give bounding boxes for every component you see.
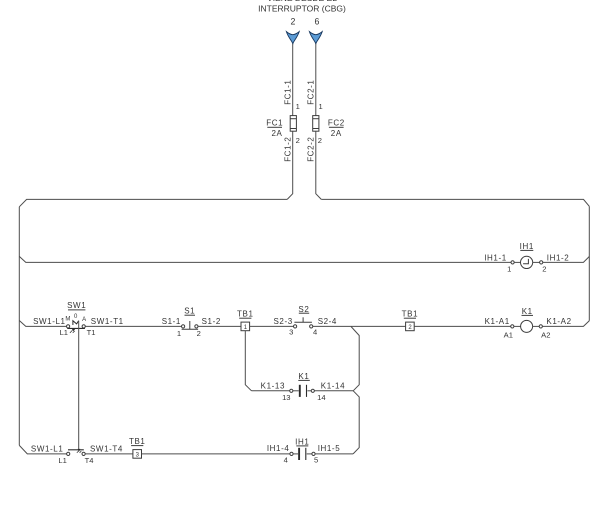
svg-text:M: M	[65, 316, 70, 322]
svg-text:3: 3	[289, 328, 293, 337]
svg-text:1: 1	[177, 329, 181, 338]
wire from hour meter IH1	[533, 261, 540, 263]
svg-text:T4: T4	[85, 456, 94, 465]
svg-text:INTERRUPTOR (CBG): INTERRUPTOR (CBG)	[258, 3, 346, 13]
svg-text:IH1: IH1	[520, 242, 534, 251]
svg-text:SW1: SW1	[67, 301, 86, 310]
svg-text:TB1: TB1	[129, 437, 145, 446]
label S1	[184, 307, 195, 316]
terminal TB1:2	[406, 322, 415, 331]
svg-text:2A: 2A	[272, 129, 283, 138]
svg-text:K1-13: K1-13	[261, 381, 285, 390]
svg-text:IH1-4: IH1-4	[267, 444, 290, 453]
wire from fuse FC1 to top bus	[287, 131, 293, 199]
svg-text:K1-A2: K1-A2	[546, 317, 571, 326]
label K1 (contact)	[298, 372, 310, 381]
top bus wire left	[19, 199, 287, 206]
svg-text:K1-A1: K1-A1	[485, 317, 510, 326]
svg-text:FC2: FC2	[328, 118, 345, 127]
wire bottom row from left bus	[19, 445, 66, 454]
svg-text:TB1: TB1	[402, 310, 418, 319]
svg-text:SW1-L1: SW1-L1	[31, 445, 64, 454]
svg-text:IH1-1: IH1-1	[484, 254, 507, 263]
terminal circle IH1 pin4	[290, 452, 293, 455]
svg-text:IH1-2: IH1-2	[547, 254, 570, 263]
svg-text:FC1: FC1	[266, 118, 283, 127]
svg-text:TB1: TB1	[237, 310, 253, 319]
svg-text:S1: S1	[184, 307, 195, 316]
svg-text:A1: A1	[504, 330, 513, 339]
selector switch SW1 pole L1-T4	[67, 449, 86, 456]
terminal circle IH1 pin1	[511, 261, 514, 264]
svg-text:IH1-5: IH1-5	[318, 444, 341, 453]
pushbutton S1 (NO)	[182, 321, 199, 329]
svg-text:K1: K1	[298, 372, 309, 381]
hour meter IH1	[521, 256, 533, 268]
terminal TB1:3	[133, 450, 142, 459]
wire main row TB1:1 to S2	[250, 325, 294, 327]
fuse FC2	[313, 116, 319, 132]
wire main row from left bus	[19, 321, 66, 327]
svg-text:SW1-L1: SW1-L1	[33, 317, 66, 326]
svg-text:2: 2	[542, 264, 546, 273]
wire drop contact row to bottom row	[353, 391, 359, 454]
wire main row TB1:2 to K1 coil	[414, 325, 511, 327]
wire bottom row IH1 contact to riser	[315, 453, 353, 455]
svg-text:K1: K1	[522, 307, 533, 316]
wire main row S2 to TB1:2	[313, 325, 406, 327]
label TB1 (terminal 3)	[129, 437, 145, 446]
svg-text:FC1-1: FC1-1	[284, 80, 293, 105]
svg-text:2: 2	[318, 136, 322, 145]
wire to hour meter IH1	[514, 261, 520, 263]
wire contact row left	[252, 390, 290, 392]
wire main row K1 to right bus	[542, 321, 589, 327]
selector switch SW1 pole L1-T1	[67, 321, 86, 333]
svg-text:5: 5	[314, 456, 318, 465]
terminal circle K1 pin14	[311, 389, 314, 392]
svg-text:T1: T1	[87, 328, 96, 337]
wire IH1 row from left bus	[19, 256, 511, 262]
wire IH1 row to right bus	[543, 257, 590, 263]
svg-text:L1: L1	[58, 456, 66, 465]
label IH1	[520, 242, 534, 251]
pushbutton S2 (NC)	[294, 317, 313, 328]
wire from connector 2 to fuse FC1	[292, 44, 294, 116]
note: VIENE DESDE EL INTERRUPTOR (CBG)	[258, 0, 346, 13]
svg-text:FC2-1: FC2-1	[307, 80, 316, 105]
relay coil K1	[521, 320, 533, 332]
label TB1 (terminal 2)	[402, 310, 418, 319]
label FC2 2A	[328, 118, 345, 138]
svg-text:2: 2	[296, 136, 300, 145]
right bus vertical wire	[588, 206, 590, 320]
svg-text:2A: 2A	[331, 129, 342, 138]
wire to coil K1	[514, 325, 521, 327]
selector switch SW1 positions M 0 A	[65, 314, 86, 323]
svg-text:FC2-2: FC2-2	[307, 137, 316, 162]
left bus vertical wire	[18, 207, 20, 446]
off-page connector 6	[309, 16, 322, 44]
svg-text:4: 4	[284, 456, 288, 465]
wire from connector 6 to fuse FC2	[315, 44, 317, 116]
svg-text:IH1: IH1	[295, 437, 309, 446]
svg-text:S2-3: S2-3	[273, 317, 292, 326]
label TB1 (terminal 1)	[237, 310, 253, 319]
svg-text:4: 4	[313, 328, 317, 337]
label SW1	[67, 301, 86, 310]
svg-text:A2: A2	[541, 330, 550, 339]
svg-text:14: 14	[317, 393, 325, 402]
top bus wire right	[321, 199, 589, 206]
terminal circle K1 A1	[511, 325, 514, 328]
label K1	[522, 307, 534, 316]
svg-text:2: 2	[197, 329, 201, 338]
fuse FC1	[290, 116, 296, 132]
svg-text:1: 1	[296, 102, 300, 111]
mechanical link wire of SW1	[78, 321, 80, 450]
contact IH1 4-5 (NO)	[293, 448, 312, 460]
svg-text:2: 2	[291, 16, 296, 26]
label S2	[298, 305, 309, 314]
wire contact row right	[314, 390, 353, 392]
wire bottom row SW1 to TB1:3	[85, 453, 133, 455]
wire from fuse FC2 to top bus	[316, 131, 322, 199]
terminal circle K1 pin13	[290, 389, 293, 392]
contact K1 13-14 (NO)	[293, 385, 311, 397]
wire drop from TB1:1	[245, 331, 251, 391]
svg-text:SW1-T1: SW1-T1	[91, 317, 124, 326]
svg-text:SW1-T4: SW1-T4	[90, 445, 123, 454]
svg-text:13: 13	[282, 393, 290, 402]
label FC1 2A	[266, 118, 283, 138]
svg-text:K1-14: K1-14	[321, 381, 345, 390]
wire bottom row TB1:3 to IH1 contact	[142, 453, 290, 455]
svg-text:1: 1	[319, 102, 323, 111]
svg-text:S1-1: S1-1	[162, 317, 181, 326]
svg-text:S2: S2	[298, 305, 309, 314]
terminal circle K1 A2	[539, 325, 542, 328]
terminal TB1:1	[241, 322, 250, 331]
off-page connector 2	[286, 16, 299, 44]
svg-text:1: 1	[507, 264, 511, 273]
label IH1 (contact)	[295, 437, 309, 446]
wire main row SW1 to S1	[85, 325, 181, 327]
svg-text:S1-2: S1-2	[202, 317, 221, 326]
svg-text:S2-4: S2-4	[318, 317, 337, 326]
wire main row S1 to TB1:1	[198, 325, 241, 327]
terminal circle IH1 pin5	[312, 452, 315, 455]
wire riser contact row to main row	[351, 327, 359, 391]
svg-text:L1: L1	[60, 328, 68, 337]
svg-text:FC1-2: FC1-2	[284, 137, 293, 162]
terminal circle IH1 pin2	[540, 261, 543, 264]
svg-text:A: A	[82, 317, 86, 323]
wire from coil K1	[533, 325, 540, 327]
svg-text:6: 6	[315, 16, 320, 26]
